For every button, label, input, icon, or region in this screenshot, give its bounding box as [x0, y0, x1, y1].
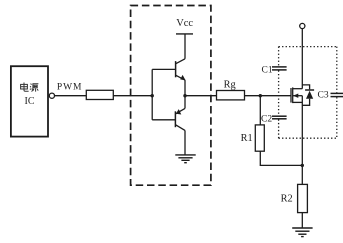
dotted package box: left edge lower (C2 to bottom) — [278, 119, 280, 138]
ground (output) — [292, 228, 312, 237]
node gate junction — [259, 94, 262, 97]
svg-text:C3: C3 — [318, 91, 329, 101]
MOSFET M1 — [291, 87, 302, 103]
wire R2 to ground — [301, 213, 303, 228]
wire gate node down to R1 — [259, 96, 261, 125]
dotted package box: top edge — [279, 46, 337, 48]
gate bar — [290, 88, 292, 103]
body arrow line — [293, 95, 302, 97]
svg-text:Rg: Rg — [224, 80, 236, 91]
wire Rg to gate — [245, 95, 292, 97]
svg-text:R1: R1 — [241, 133, 253, 144]
svg-text:C1: C1 — [262, 65, 273, 75]
node output junction — [183, 94, 186, 97]
glyph 源 — [30, 84, 32, 90]
wire Q1 emitter to output node — [184, 80, 186, 96]
source connection (channel bottom) — [293, 101, 303, 103]
resistor Rg — [217, 91, 245, 100]
base node vertical wire — [151, 69, 153, 119]
Vcc rail — [176, 33, 193, 35]
dotted package box: left edge upper (to C1) — [278, 47, 280, 67]
capacitor C1 — [272, 67, 287, 70]
wire output node to Q2 emitter — [184, 96, 186, 109]
body diode D1 — [302, 85, 314, 105]
resistor R1 — [255, 125, 264, 151]
svg-text:Vcc: Vcc — [176, 18, 193, 29]
svg-text:PWM: PWM — [57, 82, 82, 92]
node source junction — [301, 164, 304, 167]
wire source node to R2 — [301, 165, 303, 184]
ground (driver stage) — [175, 155, 195, 163]
dotted package box: bottom edge — [279, 137, 337, 139]
wire Q2 collector to ground — [184, 130, 186, 155]
wire circle to series resistor — [55, 95, 87, 97]
svg-text:R2: R2 — [281, 194, 293, 205]
svg-text:C2: C2 — [261, 114, 272, 124]
wire base node to Q1 base — [152, 68, 175, 70]
label 电源 (vector glyphs: 电 then 源) — [21, 83, 39, 92]
IC box U1 (power supply IC) — [11, 66, 48, 136]
node base junction — [151, 94, 154, 97]
capacitor C3 — [331, 93, 343, 96]
terminal circle drain — [300, 23, 305, 28]
transistor Q1 (NPN, upper) — [176, 59, 186, 81]
wire Vcc to Q1 collector — [184, 34, 186, 59]
wire resistor to base node — [113, 95, 152, 97]
resistor R2 — [298, 184, 308, 212]
drain connection (channel top) — [293, 88, 303, 90]
wire output to Rg — [185, 95, 217, 97]
channel bar — [292, 87, 294, 103]
resistor R (series, unlabeled) — [86, 90, 113, 99]
wire drain terminal to MOSFET — [301, 29, 303, 89]
transistor Q2 (PNP, lower) — [175, 108, 185, 130]
terminal circle PWM output — [49, 93, 54, 98]
glyph 电 — [21, 84, 28, 89]
dashed box driver stage — [131, 6, 211, 186]
wire R1 bottom to source node — [260, 151, 302, 165]
dotted package box: right edge upper (to C3) — [336, 47, 338, 93]
dotted package box: right edge lower (C3 to bottom) — [336, 97, 338, 138]
wire base node to Q2 base — [152, 119, 175, 121]
svg-text:IC: IC — [25, 96, 35, 107]
capacitor C2 — [272, 116, 287, 119]
dotted package box: left edge mid (C1 to C2) — [278, 71, 280, 116]
wire source down — [301, 96, 303, 166]
